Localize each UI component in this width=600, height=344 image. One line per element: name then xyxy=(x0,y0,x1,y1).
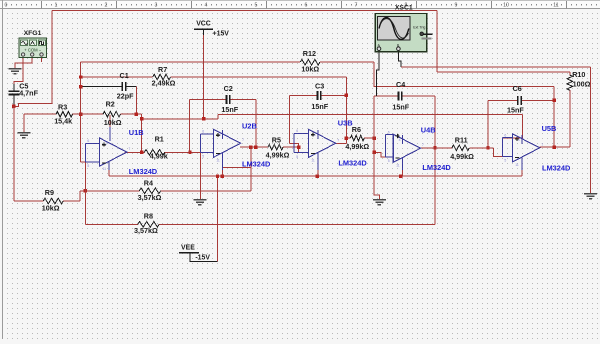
junction U4B in xyxy=(373,151,376,154)
capacitor C1 xyxy=(122,82,125,91)
label R5 value xyxy=(266,150,290,159)
svg-text:C1: C1 xyxy=(120,71,129,80)
wire U2B out xyxy=(240,146,268,148)
wire XFG1 COM to ground xyxy=(15,58,32,69)
svg-text:11: 11 xyxy=(311,158,315,162)
svg-text:4: 4 xyxy=(105,142,107,146)
svg-text:R7: R7 xyxy=(158,65,167,74)
wire feedback bus y62 xyxy=(81,61,374,63)
svg-text:7: 7 xyxy=(128,147,130,151)
svg-text:6: 6 xyxy=(202,130,204,134)
junction U4B out xyxy=(433,146,436,149)
svg-text:5: 5 xyxy=(296,155,298,159)
svg-text:3,57kΩ: 3,57kΩ xyxy=(134,226,158,235)
svg-text:C3: C3 xyxy=(315,81,324,90)
ground G5 xyxy=(584,194,597,199)
svg-text:R9: R9 xyxy=(45,188,54,197)
wire U2B vee pin xyxy=(222,168,224,177)
wire stage1 plus riser xyxy=(84,162,86,224)
wire R7C3 drop xyxy=(345,77,347,143)
junction U4B vee xyxy=(399,175,402,178)
label R11 value xyxy=(450,152,474,161)
svg-text:10kΩ: 10kΩ xyxy=(104,118,122,127)
junction VEE drop xyxy=(216,175,219,178)
wire R9 jog xyxy=(79,191,81,201)
wire bus to R10 top xyxy=(437,71,567,73)
wire U2B out down xyxy=(250,147,252,191)
wire R3 R2 line xyxy=(24,113,142,115)
resistor R12 xyxy=(300,59,320,65)
label U5B xyxy=(542,124,557,133)
svg-text:+ COM −: + COM − xyxy=(24,48,42,53)
svg-text:C2: C2 xyxy=(224,84,233,93)
svg-text:4: 4 xyxy=(518,138,520,142)
label U1B xyxy=(129,128,144,137)
junction R5 in xyxy=(297,146,300,149)
svg-text:U4B: U4B xyxy=(421,126,436,135)
svg-text:R4: R4 xyxy=(144,179,153,188)
resistor R4 xyxy=(139,188,160,194)
junction U3B vee xyxy=(315,175,318,178)
wire right drop from top bus xyxy=(436,10,438,72)
svg-text:10kΩ: 10kΩ xyxy=(42,204,60,213)
wire U3B out xyxy=(336,142,347,144)
svg-text:R10: R10 xyxy=(572,70,585,79)
wire C3 left drop xyxy=(289,95,291,143)
label U5B part xyxy=(542,164,571,173)
label VCC xyxy=(196,20,211,27)
wire U2B plus riser xyxy=(199,152,201,199)
svg-text:7: 7 xyxy=(355,3,358,9)
svg-text:15nF: 15nF xyxy=(311,102,328,111)
label R6 value xyxy=(345,142,369,151)
svg-text:4,99kΩ: 4,99kΩ xyxy=(345,142,369,151)
svg-text:7: 7 xyxy=(541,143,543,147)
wire C2 left drop xyxy=(189,100,191,153)
wire long bus y114.3 xyxy=(218,113,522,115)
svg-text:11: 11 xyxy=(103,167,107,171)
wire R11 to U5B xyxy=(469,147,493,149)
wire C6 left drop xyxy=(487,100,489,147)
resistor R10 xyxy=(567,75,573,90)
svg-text:4: 4 xyxy=(205,3,208,9)
wire mid link y118.9 xyxy=(142,118,219,120)
wire R1 to U2B xyxy=(165,151,201,153)
resistor R6 xyxy=(350,135,364,141)
wire C4 right drop xyxy=(434,96,436,225)
resistor R7 xyxy=(153,74,171,80)
junction fb drop xyxy=(140,117,143,120)
label C5 value xyxy=(19,89,38,98)
svg-text:XSC1: XSC1 xyxy=(395,5,413,12)
label R12 xyxy=(303,49,316,58)
svg-text:100Ω: 100Ω xyxy=(573,79,591,88)
label C5 xyxy=(19,81,28,90)
wire C3 left xyxy=(290,94,318,96)
svg-text:R5: R5 xyxy=(272,135,281,144)
wire U1B out xyxy=(125,151,145,153)
label C2 xyxy=(224,84,233,93)
junction R11 in xyxy=(486,146,489,149)
junction R6 left xyxy=(345,136,348,139)
junction C5 bottom xyxy=(12,105,15,108)
op-amp U1B xyxy=(85,138,130,176)
wire VEE jog xyxy=(190,256,218,262)
junction R6 right xyxy=(373,136,376,139)
junction U2B out a xyxy=(249,146,252,149)
svg-text:VEE: VEE xyxy=(181,244,195,251)
svg-text:6: 6 xyxy=(504,134,506,138)
wire scope A xyxy=(377,52,380,96)
wire C2 right drop xyxy=(255,100,257,148)
label C3 value xyxy=(311,102,328,111)
wire C4 left drop xyxy=(373,96,375,138)
op-amp U2B xyxy=(200,129,244,176)
svg-text:R8: R8 xyxy=(144,212,153,221)
wire C3 right xyxy=(321,94,346,96)
label R1 value xyxy=(150,152,168,161)
wire top bus xyxy=(52,9,437,11)
svg-text:5: 5 xyxy=(202,155,204,159)
svg-text:22pF: 22pF xyxy=(117,91,134,100)
label C6 xyxy=(513,84,522,93)
label R4 xyxy=(144,179,153,188)
wire R6 line xyxy=(346,137,374,139)
svg-text:4,99kΩ: 4,99kΩ xyxy=(266,150,290,159)
junction C3 right xyxy=(345,94,348,97)
wire R5 to U3B xyxy=(283,146,299,148)
junction C1-R2 xyxy=(135,113,138,116)
svg-text:5: 5 xyxy=(255,3,258,9)
svg-text:5: 5 xyxy=(87,164,89,168)
svg-text:4,99kΩ: 4,99kΩ xyxy=(450,152,474,161)
resistor R11 xyxy=(452,145,469,151)
wire U1B input link xyxy=(81,161,86,163)
label U3B xyxy=(338,118,353,127)
label +15V xyxy=(213,31,230,38)
resistor R8 xyxy=(138,222,159,228)
label R10 value xyxy=(573,79,591,88)
wire scope B line xyxy=(401,66,591,68)
label R7 value xyxy=(152,78,176,87)
label C2 value xyxy=(221,105,238,114)
label R11 xyxy=(455,136,468,145)
wire R7 line xyxy=(81,76,347,78)
op-amp U4B xyxy=(386,130,424,176)
label U4B part xyxy=(422,163,451,172)
label VEE xyxy=(181,244,195,251)
svg-text:10kΩ: 10kΩ xyxy=(301,65,319,74)
junction U2B out b xyxy=(254,146,257,149)
svg-text:Ext Trig: Ext Trig xyxy=(413,26,425,30)
svg-text:6: 6 xyxy=(87,139,89,143)
label R3 xyxy=(58,103,67,112)
label R8 xyxy=(144,212,153,221)
capacitor C4 xyxy=(398,91,401,100)
svg-text:11: 11 xyxy=(216,158,220,162)
wire U1B top pin link xyxy=(109,115,111,141)
svg-text:3,57kΩ: 3,57kΩ xyxy=(138,193,162,202)
label C3 xyxy=(315,81,324,90)
wire VEE drop xyxy=(217,176,219,261)
label R1 xyxy=(155,134,164,143)
svg-text:15nF: 15nF xyxy=(221,105,238,114)
wire C2 right xyxy=(230,99,256,101)
resistor R2 xyxy=(103,111,121,117)
wire C1 right drop xyxy=(135,87,137,115)
wire R10 bottom lead xyxy=(569,90,571,147)
svg-text:R3: R3 xyxy=(58,103,67,112)
svg-text:U2B: U2B xyxy=(242,122,257,131)
power VEE xyxy=(179,253,199,257)
svg-text:VCC: VCC xyxy=(196,20,211,27)
wire R10 top lead xyxy=(567,72,570,75)
svg-text:11: 11 xyxy=(515,163,519,167)
wire scope B jog xyxy=(398,52,401,67)
svg-text:R6: R6 xyxy=(352,125,361,134)
svg-text:7: 7 xyxy=(422,143,424,147)
svg-text:LM324D: LM324D xyxy=(242,159,271,168)
wire U5B in jog xyxy=(494,148,503,157)
svg-text:LM324D: LM324D xyxy=(129,167,158,176)
junction C6 right xyxy=(553,99,556,102)
wire mid link jog up xyxy=(217,114,219,119)
label C6 value xyxy=(507,105,524,114)
svg-text:4: 4 xyxy=(314,133,316,137)
svg-text:LM324D: LM324D xyxy=(422,163,451,172)
wire XFG1 output to C5 xyxy=(14,58,23,85)
label R4 value xyxy=(138,193,162,202)
svg-text:2,49kΩ: 2,49kΩ xyxy=(152,78,176,87)
label R6 xyxy=(352,125,361,134)
resistor R5 xyxy=(268,144,283,150)
label R9 xyxy=(45,188,54,197)
wire C4 left xyxy=(374,95,398,97)
label U2B xyxy=(242,122,257,131)
junction U2B vee xyxy=(221,175,224,178)
label C1 xyxy=(120,71,129,80)
ground G1 xyxy=(9,69,22,74)
wire C6 left xyxy=(488,99,518,101)
svg-text:2: 2 xyxy=(105,3,108,9)
svg-text:4,7nF: 4,7nF xyxy=(19,89,38,98)
svg-text:C4: C4 xyxy=(396,80,405,89)
ground G3 xyxy=(193,200,206,205)
wire C4 right xyxy=(402,95,435,97)
junction spine-R7 xyxy=(79,75,82,78)
label U1B part xyxy=(129,167,158,176)
wire stage1 spine xyxy=(80,62,82,162)
svg-text:6: 6 xyxy=(388,130,390,134)
ground G2 xyxy=(17,133,30,138)
svg-text:10: 10 xyxy=(503,3,509,9)
wire R8 line xyxy=(85,223,435,225)
svg-text:4: 4 xyxy=(219,133,221,137)
wire C6 right drop xyxy=(553,87,555,148)
resistor R1 xyxy=(144,150,164,156)
wire R9 line xyxy=(14,200,80,202)
junction spine-C1 xyxy=(79,85,82,88)
junction VCC-bus xyxy=(202,117,205,120)
svg-text:11: 11 xyxy=(553,3,558,9)
label -15V xyxy=(195,254,210,261)
power VCC xyxy=(194,29,213,35)
wire U2B loop left xyxy=(222,167,251,169)
wire R4 line xyxy=(80,190,251,192)
svg-text:U3B: U3B xyxy=(338,118,353,127)
function generator XFG1 xyxy=(19,38,47,58)
label R3 value xyxy=(54,117,72,126)
capacitor C2 xyxy=(226,95,229,104)
wire stage1 fb drop xyxy=(141,114,143,152)
svg-text:XFG1: XFG1 xyxy=(24,30,42,37)
capacitor C5 xyxy=(9,84,20,98)
label XFG1 xyxy=(24,30,42,37)
label U3B part xyxy=(338,158,367,167)
svg-text:4,99k: 4,99k xyxy=(150,152,168,161)
wire U5B out xyxy=(540,146,570,148)
wire bus end drop U5B xyxy=(502,114,522,138)
junction R1-C2drop xyxy=(188,151,191,154)
op-amp U3B xyxy=(294,129,339,176)
svg-text:LM324D: LM324D xyxy=(542,164,571,173)
svg-text:7: 7 xyxy=(242,138,244,142)
svg-text:R2: R2 xyxy=(106,100,115,109)
ground G2 stem xyxy=(23,114,25,132)
svg-text:0: 0 xyxy=(5,3,8,9)
ground G4 xyxy=(373,200,386,205)
label C4 xyxy=(396,80,405,89)
svg-text:R12: R12 xyxy=(303,49,316,58)
svg-text:6: 6 xyxy=(305,3,308,9)
label R9 value xyxy=(42,204,60,213)
label R12 value xyxy=(301,65,319,74)
wire scope B drop xyxy=(590,67,592,193)
resistor R9 xyxy=(43,198,63,204)
svg-text:R11: R11 xyxy=(455,136,468,145)
label R8 value xyxy=(134,226,158,235)
svg-text:4: 4 xyxy=(399,138,401,142)
wire C5 bottom jog to riser xyxy=(14,10,52,106)
wire U3B in jog xyxy=(290,144,299,153)
label U4B xyxy=(421,126,436,135)
wire VCC lead xyxy=(203,35,205,119)
junction R4-R9-node xyxy=(84,189,87,192)
resistor R3 xyxy=(56,111,73,117)
svg-text:15,4k: 15,4k xyxy=(54,117,72,126)
capacitor C3 xyxy=(317,91,320,100)
label C1 value xyxy=(117,91,134,100)
wire C6 right xyxy=(521,99,554,101)
wire C1 line xyxy=(81,86,137,88)
svg-text:9: 9 xyxy=(455,3,458,9)
svg-text:3: 3 xyxy=(155,3,158,9)
svg-text:R1: R1 xyxy=(155,134,164,143)
svg-text:15nF: 15nF xyxy=(392,102,409,111)
svg-text:5: 5 xyxy=(388,159,390,163)
svg-text:-15V: -15V xyxy=(195,254,210,261)
wire VEE rail xyxy=(109,175,522,177)
junction U1B out xyxy=(140,151,143,154)
wire C2 left xyxy=(190,99,226,101)
svg-text:6: 6 xyxy=(296,129,298,133)
label XSC1 xyxy=(395,5,413,12)
label R7 xyxy=(158,65,167,74)
wire bus jog down right xyxy=(374,62,554,86)
wire XFG1 right stub xyxy=(41,58,43,63)
label U2B part xyxy=(242,159,271,168)
junction U5B out xyxy=(553,146,556,149)
capacitor C6 xyxy=(518,96,521,105)
svg-text:U1B: U1B xyxy=(129,128,144,137)
svg-text:5: 5 xyxy=(504,159,506,163)
svg-text:+15V: +15V xyxy=(213,31,230,38)
op-amp U5B xyxy=(502,134,543,177)
wire U4B out xyxy=(420,147,452,149)
svg-text:U5B: U5B xyxy=(542,124,557,133)
label C4 value xyxy=(392,102,409,111)
wire left rail down to R9 xyxy=(13,106,15,201)
junction spine-R32 xyxy=(79,113,82,116)
svg-text:15nF: 15nF xyxy=(507,105,524,114)
wire U4B gnd riser xyxy=(374,152,379,199)
label R2 value xyxy=(104,118,122,127)
svg-text:11: 11 xyxy=(396,163,400,167)
svg-text:C6: C6 xyxy=(513,84,522,93)
label R5 xyxy=(272,135,281,144)
oscilloscope XSC1 xyxy=(375,13,432,51)
svg-text:LM324D: LM324D xyxy=(338,158,367,167)
svg-text:1: 1 xyxy=(55,3,58,9)
svg-text:7: 7 xyxy=(337,138,339,142)
label R10 xyxy=(572,70,585,79)
label R2 xyxy=(106,100,115,109)
wire U4B in path xyxy=(374,138,386,157)
